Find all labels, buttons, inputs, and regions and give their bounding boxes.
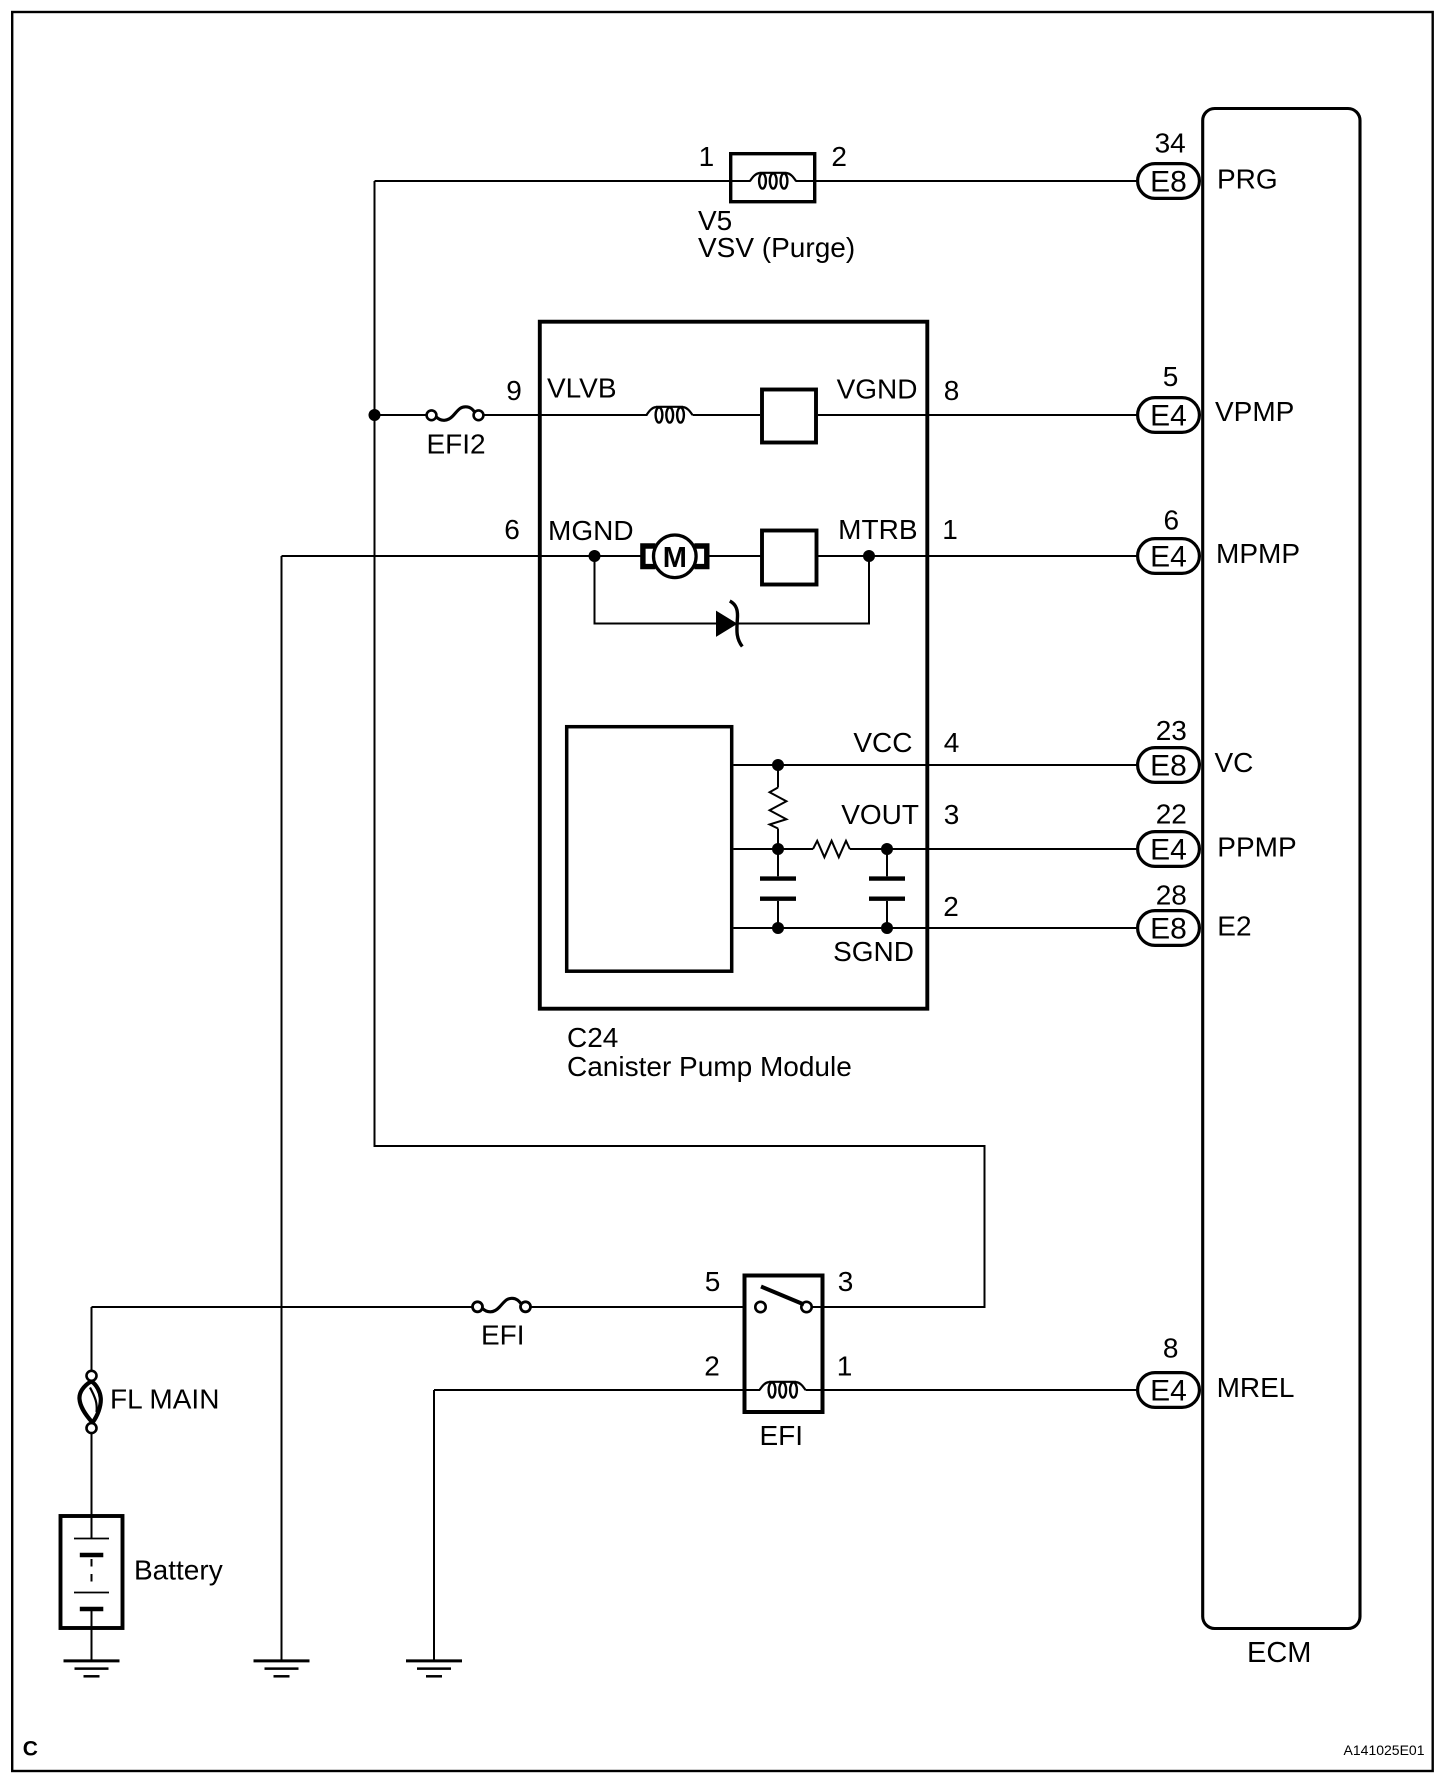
- ECM U1: [1203, 109, 1360, 1670]
- connector E8 pin28 E2: [1138, 880, 1252, 946]
- svg-text:2: 2: [704, 1351, 720, 1382]
- svg-text:4: 4: [944, 727, 960, 758]
- diode D1 (zener) across motor: [717, 601, 743, 647]
- node: VOUT junction right: [881, 843, 893, 855]
- connector E4 pin6 MPMP: [1138, 505, 1300, 574]
- svg-text:Battery: Battery: [134, 1555, 223, 1586]
- fuse EFI: [473, 1298, 531, 1350]
- svg-text:VPMP: VPMP: [1215, 396, 1294, 427]
- svg-text:6: 6: [1164, 505, 1180, 536]
- svg-text:FL MAIN: FL MAIN: [110, 1384, 219, 1415]
- svg-text:34: 34: [1155, 128, 1186, 159]
- svg-text:2: 2: [943, 891, 959, 922]
- wire: fuse EFI2 to C24 pin9 VLVB: [484, 414, 648, 416]
- wire: fuse EFI to relay pin5: [531, 1306, 756, 1308]
- svg-text:E8: E8: [1150, 913, 1187, 946]
- svg-text:9: 9: [506, 375, 522, 406]
- wire: sensor VOUT: [734, 848, 814, 850]
- svg-text:1: 1: [837, 1351, 853, 1382]
- wire: VOUT to ECM PPMP: [850, 848, 1137, 850]
- wire: relay pin2 to ground: [433, 1390, 435, 1661]
- ground G1 (battery): [64, 1661, 120, 1676]
- svg-text:3: 3: [944, 799, 960, 830]
- svg-text:EFI: EFI: [760, 1420, 804, 1451]
- connector E4 pin5 VPMP: [1138, 361, 1295, 433]
- relay switch contacts: [755, 1287, 824, 1313]
- svg-text:E4: E4: [1150, 834, 1187, 867]
- svg-text:MGND: MGND: [548, 515, 634, 546]
- battery BAT: [61, 1516, 223, 1661]
- svg-text:22: 22: [1156, 799, 1187, 830]
- svg-text:C: C: [23, 1738, 38, 1761]
- wire: sensor SGND to ECM E2: [734, 927, 1138, 929]
- capacitor C1: [760, 849, 796, 928]
- svg-text:8: 8: [1163, 1333, 1179, 1364]
- VSV (Purge) V5: [698, 141, 855, 263]
- node: junction on +B feed at EFI2 branch: [369, 409, 381, 421]
- node: VCC junction: [772, 759, 784, 771]
- resistor R2 (series VOUT): [813, 841, 850, 857]
- valve block (solenoid valve) in C24: [762, 390, 816, 443]
- wire: MGND to ground: [281, 556, 283, 1661]
- svg-text:MREL: MREL: [1217, 1372, 1295, 1403]
- ground G2 (relay coil): [406, 1661, 462, 1676]
- capacitor C2: [869, 849, 905, 928]
- coil of V5: [729, 173, 817, 189]
- coil L1 on VLVB line: [647, 407, 693, 423]
- wire: coil to valve block: [693, 414, 761, 416]
- node: VOUT junction left: [772, 843, 784, 855]
- svg-text:E8: E8: [1150, 166, 1187, 199]
- svg-text:SGND: SGND: [833, 936, 914, 967]
- sensor unit box in C24: [567, 727, 732, 972]
- ground G3 (motor ground): [254, 1661, 310, 1676]
- node: junction MGND: [589, 550, 601, 562]
- fuse EFI2: [427, 407, 486, 460]
- svg-text:E4: E4: [1150, 541, 1187, 574]
- svg-text:E2: E2: [1217, 911, 1251, 942]
- wire: FL MAIN to battery: [91, 1433, 93, 1516]
- svg-text:2: 2: [831, 141, 847, 172]
- MTRB block in C24: [762, 531, 817, 585]
- svg-text:PPMP: PPMP: [1217, 832, 1296, 863]
- svg-text:A141025E01: A141025E01: [1344, 1742, 1425, 1758]
- wire: VSV pin2 to ECM PRG: [817, 180, 1138, 182]
- wire: valve block to ECM VPMP: [818, 414, 1137, 416]
- connector E8 pin34 PRG: [1138, 128, 1278, 199]
- node: SGND junction right: [881, 922, 893, 934]
- svg-text:ECM: ECM: [1247, 1637, 1311, 1669]
- wire: VSV pin1 to junction node: [375, 180, 730, 182]
- connector E4 pin22 PPMP: [1138, 799, 1297, 867]
- connector E4 pin8 MREL: [1138, 1333, 1295, 1408]
- svg-text:28: 28: [1156, 880, 1187, 911]
- svg-text:M: M: [663, 542, 687, 574]
- wire: diode bypass loop: [595, 556, 870, 624]
- svg-text:VLVB: VLVB: [547, 373, 617, 404]
- svg-text:5: 5: [1163, 361, 1179, 392]
- svg-text:5: 5: [705, 1266, 721, 1297]
- wire: MTRB block to ECM MPMP: [817, 555, 1138, 557]
- svg-text:VCC: VCC: [853, 727, 912, 758]
- svg-text:VGND: VGND: [837, 374, 918, 405]
- svg-text:MPMP: MPMP: [1216, 538, 1300, 569]
- wire: battery feed to fuse EFI: [92, 1306, 474, 1308]
- svg-text:VOUT: VOUT: [841, 799, 919, 830]
- svg-text:3: 3: [838, 1266, 854, 1297]
- svg-text:E4: E4: [1150, 400, 1187, 433]
- svg-text:E4: E4: [1150, 1375, 1187, 1408]
- motor M1 pump motor: [643, 535, 707, 578]
- wire: sensor VCC to ECM VC: [734, 764, 1138, 766]
- wire: +B feed from PRG row down, across, to EFI relay pin3: [375, 181, 985, 1307]
- wire: motor to MTRB block: [707, 555, 762, 557]
- svg-text:C24: C24: [567, 1022, 618, 1053]
- svg-text:PRG: PRG: [1217, 164, 1278, 195]
- connector E8 pin23 VC: [1138, 715, 1254, 783]
- resistor R1 (pull-up VCC to VOUT): [770, 765, 787, 849]
- C24 Canister Pump Module box: [540, 322, 928, 1082]
- svg-text:6: 6: [504, 514, 520, 545]
- svg-text:VSV (Purge): VSV (Purge): [698, 232, 855, 263]
- relay coil: [434, 1382, 806, 1398]
- wire: relay pin1 to ECM MREL: [806, 1389, 1138, 1391]
- svg-text:1: 1: [942, 514, 958, 545]
- wire: fuse row down to FL MAIN: [91, 1307, 93, 1371]
- svg-text:Canister Pump Module: Canister Pump Module: [567, 1051, 852, 1082]
- wire: junction to fuse EFI2: [375, 414, 428, 416]
- node: SGND junction left: [772, 922, 784, 934]
- wire: MGND branch to C24 pin6: [282, 555, 642, 557]
- svg-text:EFI2: EFI2: [427, 429, 486, 460]
- svg-text:23: 23: [1156, 715, 1187, 746]
- svg-text:MTRB: MTRB: [838, 514, 917, 545]
- fusible link FL MAIN: [79, 1371, 219, 1433]
- svg-text:1: 1: [699, 141, 715, 172]
- svg-text:EFI: EFI: [481, 1320, 525, 1351]
- node: junction MTRB: [863, 550, 875, 562]
- svg-text:8: 8: [944, 375, 960, 406]
- svg-text:VC: VC: [1215, 747, 1254, 778]
- svg-text:E8: E8: [1150, 750, 1187, 783]
- relay EFI (main relay): [704, 1266, 853, 1451]
